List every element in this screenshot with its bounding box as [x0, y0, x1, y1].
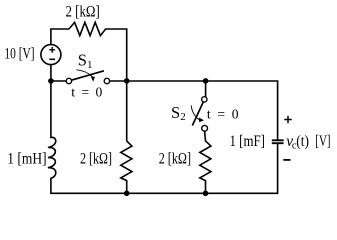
svg-text:2 [kΩ]: 2 [kΩ] — [66, 3, 100, 20]
svg-text:t = 0: t = 0 — [207, 107, 239, 122]
svg-text:2 [kΩ]: 2 [kΩ] — [80, 150, 112, 167]
svg-text:2 [kΩ]: 2 [kΩ] — [159, 150, 191, 167]
svg-text:S2: S2 — [171, 103, 186, 123]
svg-text:S1: S1 — [78, 51, 93, 71]
svg-text:10 [V]: 10 [V] — [4, 45, 34, 62]
svg-text:1 [mH]: 1 [mH] — [7, 150, 46, 167]
svg-text:t = 0: t = 0 — [71, 85, 102, 100]
svg-text:1 [mF]: 1 [mF] — [230, 133, 265, 150]
svg-text:vc(t)[V]: vc(t)[V] — [286, 133, 330, 151]
